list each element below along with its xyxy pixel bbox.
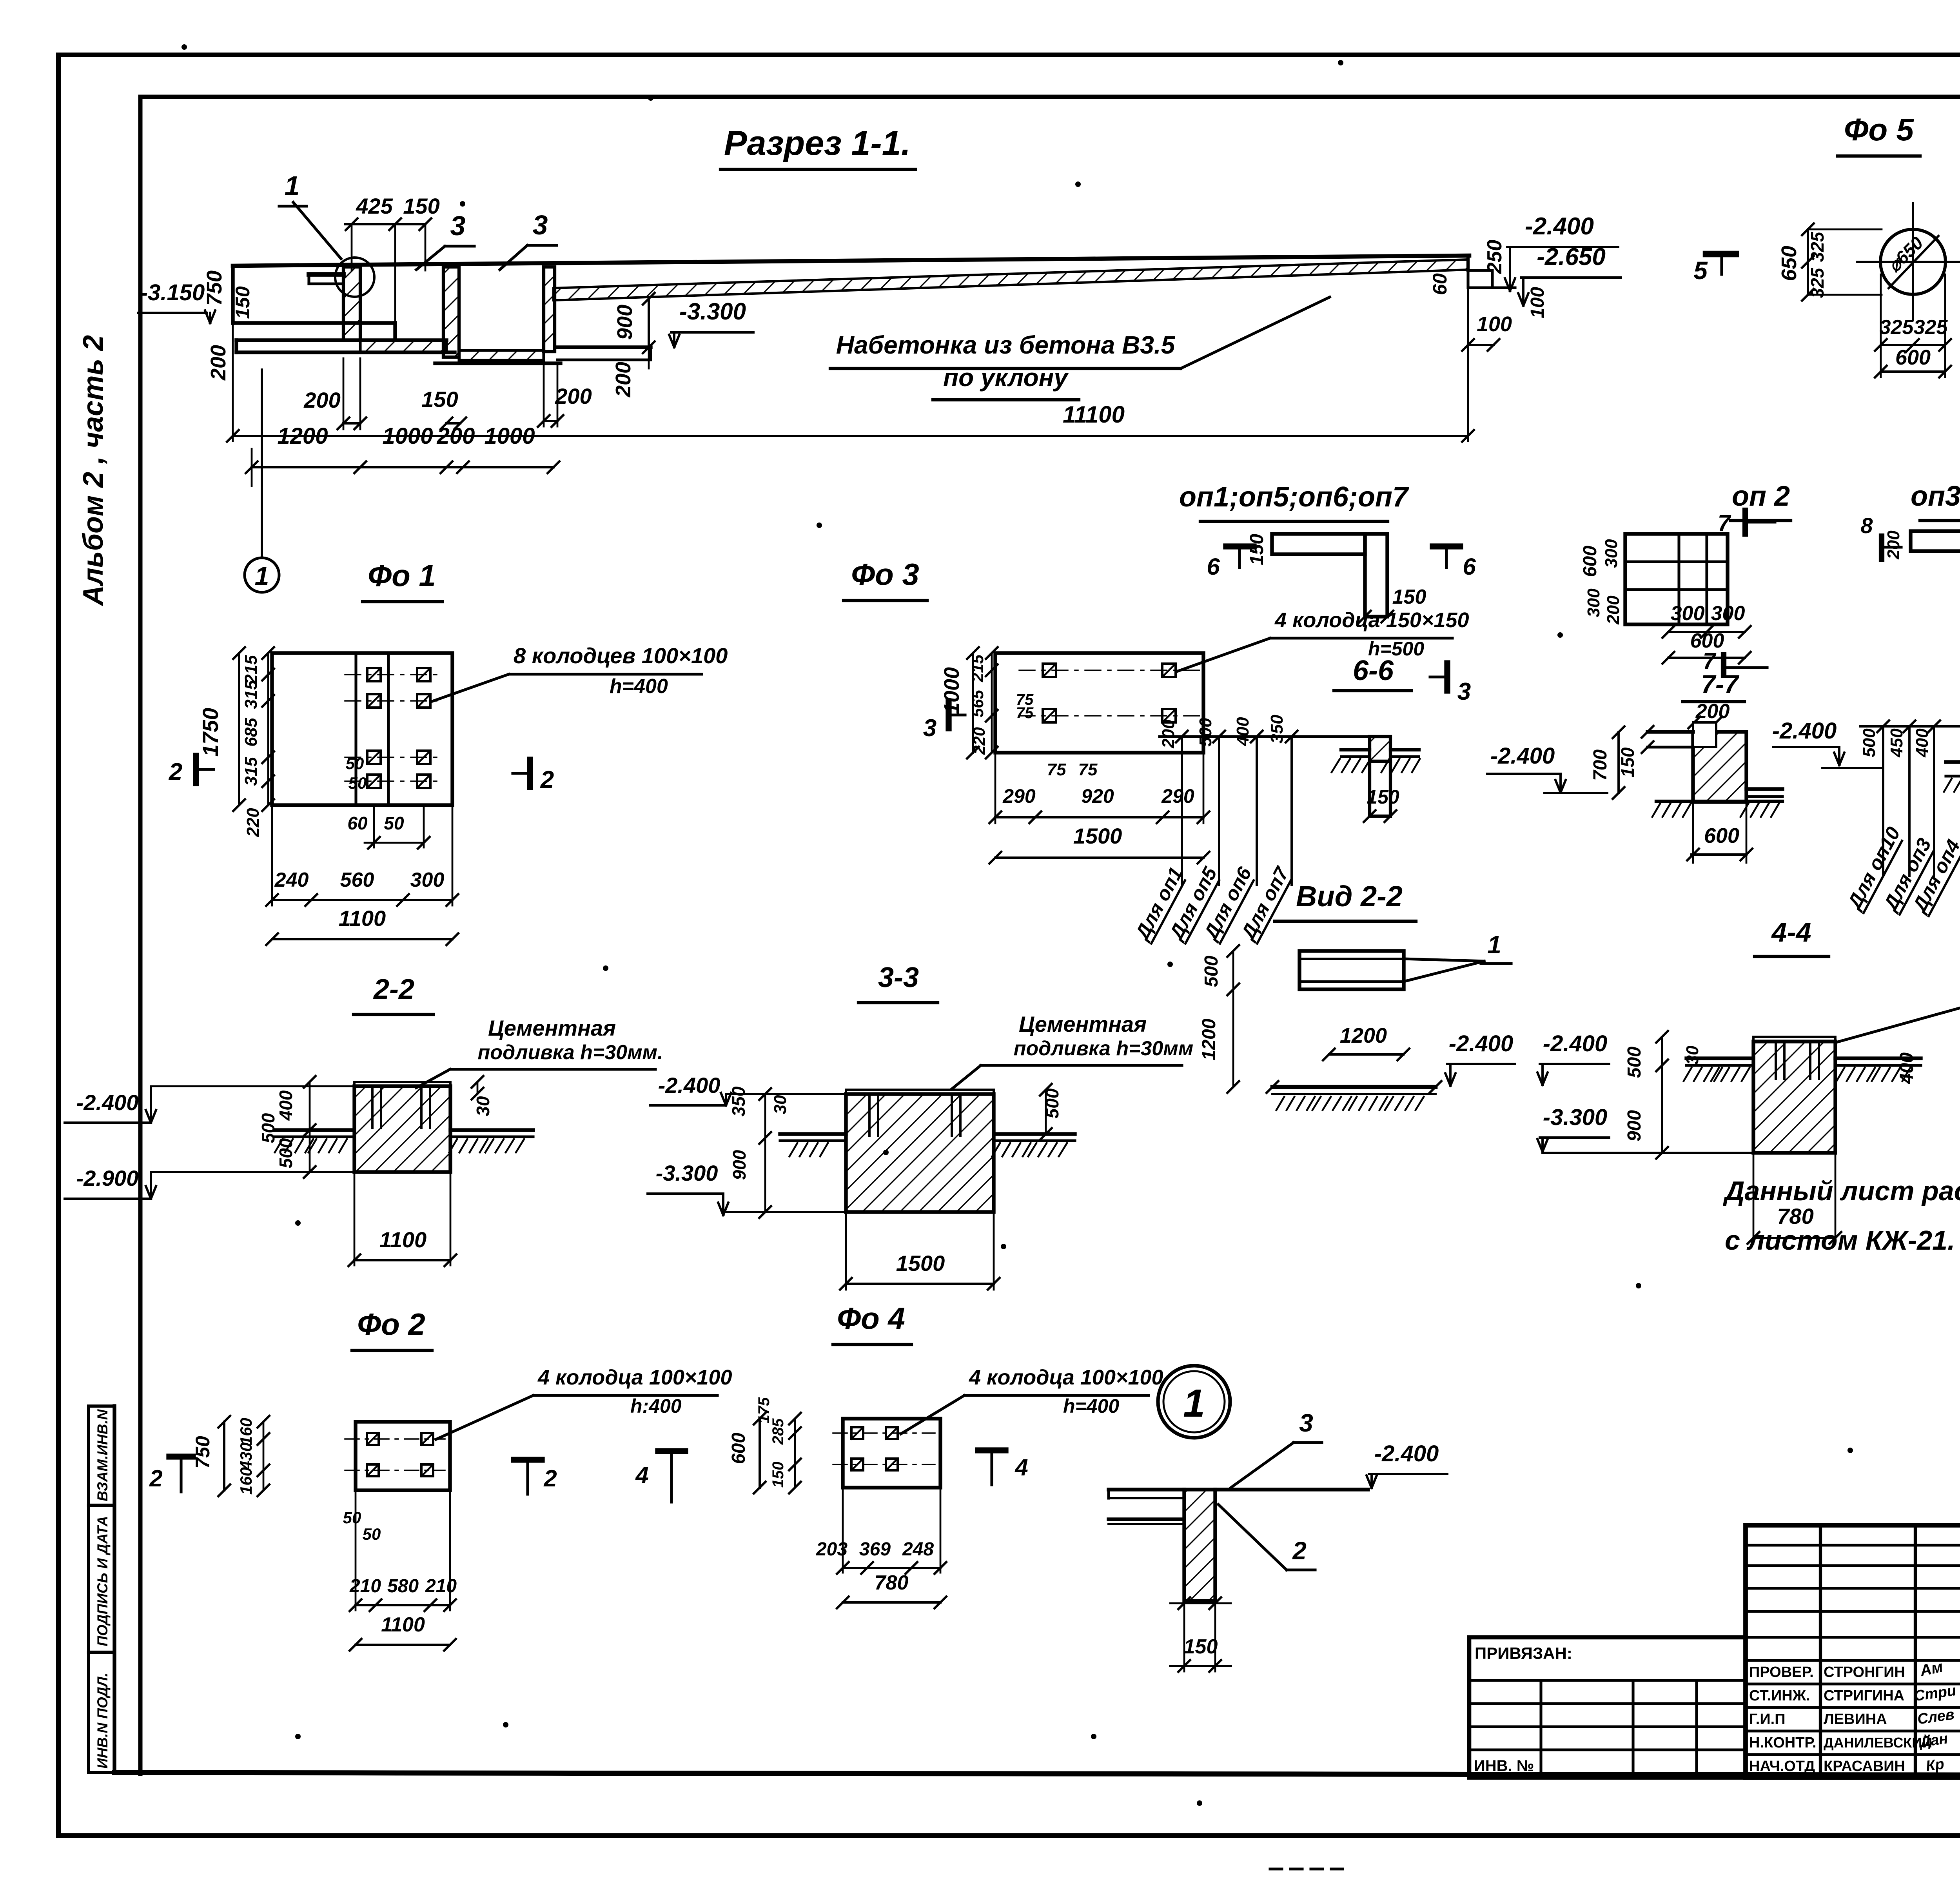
svg-text:Фо 5: Фо 5	[1844, 112, 1915, 147]
svg-text:Фо 4: Фо 4	[837, 1301, 905, 1335]
svg-text:350: 350	[1267, 715, 1287, 744]
privyazan table	[1469, 1637, 1746, 1778]
2-2 note leader	[416, 1069, 450, 1088]
Fo1 bolts	[367, 668, 381, 681]
razrez top line	[233, 256, 1469, 266]
svg-text:500: 500	[276, 1138, 296, 1168]
svg-text:500: 500	[1201, 956, 1222, 987]
7-7 ground line	[1656, 800, 1782, 803]
Fo3 section mark 3 right	[1444, 663, 1450, 691]
svg-text:с листом КЖ-21.: с листом КЖ-21.	[1725, 1225, 1955, 1256]
svg-text:600: 600	[1704, 824, 1739, 847]
title block upper grid rows	[1746, 1544, 1960, 1546]
Fo1 column strip lines	[354, 653, 357, 805]
svg-text:500: 500	[1196, 718, 1215, 747]
3-3 bolts in block	[868, 1094, 871, 1136]
op3 plan bar	[1911, 531, 1960, 551]
svg-text:h=400: h=400	[610, 675, 668, 698]
Fo2 bolt axes	[345, 1438, 445, 1440]
svg-text:оп3;оп4;оп10.: оп3;оп4;оп10.	[1911, 481, 1960, 512]
Fo5 left vertical dim 650 325 325	[1807, 229, 1809, 295]
bottom stray dash	[1270, 1867, 1343, 1870]
4-4 bottom level line	[1543, 1152, 1753, 1154]
Fo5 circle d650	[1880, 229, 1945, 294]
4-4 slab lines	[1686, 1056, 1753, 1060]
svg-text:200: 200	[555, 384, 592, 408]
axis circle 1	[245, 558, 279, 592]
svg-text:-3.150: -3.150	[140, 280, 205, 305]
detail1 hatched column	[1184, 1490, 1215, 1601]
svg-text:Альбом 2 , часть 2: Альбом 2 , часть 2	[78, 335, 109, 606]
svg-text:500: 500	[1624, 1047, 1645, 1078]
svg-text:Цементная: Цементная	[488, 1016, 616, 1040]
svg-text:1000: 1000	[940, 667, 964, 714]
detail1 top slab lines	[1109, 1488, 1184, 1491]
svg-text:325: 325	[1807, 267, 1828, 298]
svg-text:200: 200	[1695, 700, 1730, 723]
svg-text:3-3: 3-3	[878, 962, 919, 993]
Fo4 section mark 4 left	[658, 1448, 685, 1454]
svg-text:-2.900: -2.900	[76, 1166, 139, 1190]
8-8 dim extension verticals	[1882, 726, 1884, 876]
svg-text:Данный лист рассматривать вмес: Данный лист рассматривать вместе	[1723, 1176, 1960, 1206]
svg-text:ЛЕВИНА: ЛЕВИНА	[1824, 1711, 1887, 1727]
4-4 ground hatch	[1684, 1068, 1691, 1081]
svg-text:-3.300: -3.300	[1543, 1105, 1607, 1130]
Fo1 plan outer rect	[272, 653, 452, 805]
2-2 cement pad	[354, 1082, 450, 1086]
svg-text:-2.400: -2.400	[658, 1073, 720, 1098]
svg-text:-2.400: -2.400	[1772, 718, 1837, 744]
7-7 hatched block	[1693, 732, 1746, 802]
6-6 slab lines	[1341, 748, 1370, 751]
svg-text:4 колодца 100×100: 4 колодца 100×100	[969, 1366, 1163, 1389]
svg-text:4: 4	[635, 1462, 648, 1488]
svg-text:150: 150	[421, 387, 458, 412]
svg-text:150: 150	[403, 194, 439, 218]
svg-text:подливка h=30мм: подливка h=30мм	[1014, 1037, 1193, 1060]
detail1 lower slab lines	[1109, 1517, 1183, 1521]
svg-text:560: 560	[340, 869, 374, 891]
svg-text:h=500: h=500	[1368, 638, 1424, 660]
svg-text:100: 100	[1477, 312, 1512, 336]
svg-text:900: 900	[1624, 1110, 1645, 1141]
crew table row lines	[1746, 1659, 1960, 1662]
svg-text:75: 75	[1078, 760, 1098, 779]
Fo1 section mark 2 right	[527, 760, 533, 787]
axis circle 1 bottom	[1158, 1366, 1230, 1438]
svg-text:1: 1	[1183, 1381, 1205, 1425]
Fo5 section mark 5 left	[1706, 251, 1736, 258]
op1 plan column	[1365, 534, 1387, 617]
svg-text:150: 150	[1184, 1635, 1218, 1658]
svg-text:285: 285	[769, 1418, 787, 1445]
wall 2 hatched	[443, 267, 459, 357]
svg-text:Цементная: Цементная	[1019, 1012, 1147, 1036]
svg-text:Фо 2: Фо 2	[357, 1307, 425, 1341]
pit floor hatch strip	[459, 350, 544, 360]
svg-text:600: 600	[1580, 546, 1601, 577]
svg-text:8: 8	[1860, 513, 1873, 538]
wall 1 hatched	[343, 267, 360, 340]
7-7 right slab lines	[1746, 787, 1782, 791]
detail circle on wall1	[335, 258, 374, 297]
svg-text:215: 215	[241, 655, 261, 684]
svg-text:Вид 2-2: Вид 2-2	[1296, 880, 1403, 913]
Fo2 bolts	[367, 1433, 379, 1445]
detail1 top line right	[1215, 1488, 1368, 1491]
Fo2 plan outer rect	[356, 1422, 450, 1490]
svg-text:3: 3	[923, 715, 936, 742]
razrez floor hatch strip	[360, 340, 446, 352]
svg-text:1200: 1200	[1199, 1018, 1220, 1060]
svg-text:2: 2	[1292, 1537, 1307, 1565]
svg-text:ИНВ. №: ИНВ. №	[1474, 1757, 1534, 1775]
2-2 hatched block	[354, 1086, 450, 1172]
svg-text:-2.400: -2.400	[1374, 1441, 1439, 1466]
svg-text:6: 6	[1207, 553, 1220, 580]
4-4 bolts in block	[1775, 1042, 1777, 1079]
svg-text:400: 400	[1896, 1052, 1917, 1084]
svg-text:СТ.ИНЖ.: СТ.ИНЖ.	[1749, 1688, 1810, 1704]
svg-text:200: 200	[1159, 719, 1178, 749]
svg-text:250: 250	[1483, 240, 1506, 274]
svg-text:-2.400: -2.400	[1490, 743, 1555, 769]
svg-text:248: 248	[902, 1539, 934, 1560]
svg-text:2: 2	[540, 766, 554, 793]
title block outer rect	[1746, 1525, 1960, 1778]
8-8 slab lines	[1946, 760, 1960, 764]
svg-text:5: 5	[1693, 256, 1708, 285]
svg-text:Набетонка из бетона В3.5: Набетонка из бетона В3.5	[836, 331, 1176, 359]
4-4 hatched block	[1753, 1042, 1835, 1153]
svg-text:160: 160	[237, 1467, 255, 1495]
svg-text:150: 150	[1247, 534, 1267, 565]
svg-text:по уклону: по уклону	[943, 363, 1069, 392]
6-6 top line	[1160, 735, 1370, 738]
svg-text:315: 315	[241, 757, 261, 786]
svg-text:215: 215	[968, 654, 987, 682]
svg-text:2: 2	[149, 1465, 162, 1492]
svg-text:325: 325	[1914, 316, 1948, 339]
svg-text:Г.И.П: Г.И.П	[1749, 1711, 1786, 1727]
Fo4 plan outer rect	[843, 1419, 940, 1488]
svg-text:160: 160	[237, 1418, 255, 1445]
svg-text:220: 220	[243, 808, 263, 837]
wall 3 hatched	[544, 267, 555, 352]
Fo1 bolt row axes	[345, 674, 439, 675]
svg-text:300: 300	[1602, 539, 1621, 568]
Fo3 section mark 3 left	[946, 702, 951, 728]
svg-text:ПОДПИСЬ И ДАТА: ПОДПИСЬ И ДАТА	[94, 1516, 111, 1646]
scan speckle dots	[181, 44, 187, 50]
svg-text:Фо 3: Фо 3	[851, 557, 919, 592]
svg-text:оп 2: оп 2	[1732, 481, 1790, 512]
svg-text:30: 30	[771, 1095, 790, 1114]
svg-text:6-6: 6-6	[1353, 655, 1394, 686]
inventory strip dividers	[89, 1504, 114, 1507]
svg-text:325: 325	[1807, 231, 1828, 262]
svg-text:СТРОНГИН: СТРОНГИН	[1824, 1664, 1905, 1680]
3-3 note leader	[952, 1065, 981, 1089]
svg-text:500: 500	[1860, 728, 1879, 757]
svg-text:НАЧ.ОТД: НАЧ.ОТД	[1749, 1758, 1815, 1775]
razrez bottom slab lines	[236, 338, 446, 342]
Fo4 section mark 4 right	[978, 1447, 1005, 1453]
svg-text:325: 325	[1880, 316, 1914, 339]
svg-text:ВЗАМ.ИНВ.N: ВЗАМ.ИНВ.N	[94, 1409, 111, 1501]
svg-text:2: 2	[169, 758, 182, 786]
svg-text:7: 7	[1718, 510, 1731, 536]
svg-text:300: 300	[1711, 602, 1745, 625]
svg-text:150: 150	[1367, 786, 1399, 808]
axis line to circle 1	[261, 370, 263, 557]
svg-text:1100: 1100	[379, 1227, 426, 1252]
svg-text:3: 3	[450, 210, 466, 241]
3-3 ground hatch	[789, 1143, 797, 1156]
svg-text:150: 150	[232, 286, 254, 319]
svg-text:60: 60	[347, 813, 368, 833]
svg-text:50: 50	[348, 774, 367, 792]
svg-text:8 колодцев 100×100: 8 колодцев 100×100	[514, 643, 728, 668]
svg-text:-2.400: -2.400	[1543, 1031, 1607, 1056]
4-4 cement pad	[1753, 1037, 1835, 1042]
svg-text:100: 100	[1527, 287, 1548, 318]
3-3 slab lines	[780, 1132, 846, 1136]
3-3 cement pad	[846, 1090, 994, 1094]
svg-text:200: 200	[1604, 595, 1623, 625]
svg-text:h:400: h:400	[630, 1395, 682, 1417]
svg-text:50: 50	[363, 1525, 381, 1543]
svg-text:60: 60	[1429, 273, 1451, 295]
svg-text:30: 30	[473, 1096, 493, 1116]
svg-text:50: 50	[346, 754, 364, 773]
Fo2 section mark 2 right	[514, 1457, 542, 1463]
Fo4 bolts	[851, 1427, 863, 1439]
svg-text:-2.400: -2.400	[1449, 1031, 1513, 1056]
leader and label 1	[293, 202, 341, 259]
svg-text:3: 3	[1457, 678, 1471, 705]
6-6 hatched column	[1370, 737, 1390, 761]
right lower slab lines	[557, 345, 651, 349]
nabetonka leader	[1181, 297, 1330, 368]
svg-text:1: 1	[255, 561, 269, 590]
razrez floor line left room	[233, 321, 395, 325]
svg-text:780: 780	[875, 1571, 909, 1594]
op2 section mark 7 top	[1742, 510, 1748, 534]
razrez left edge	[231, 266, 234, 323]
svg-text:315: 315	[241, 680, 261, 709]
svg-text:ДАНИЛЕВСКИЙ: ДАНИЛЕВСКИЙ	[1824, 1734, 1932, 1751]
svg-text:1750: 1750	[198, 708, 223, 757]
7-7 left slab lines	[1648, 730, 1693, 733]
svg-text:1: 1	[1487, 931, 1501, 959]
Fo1 section mark 2 left	[193, 756, 199, 783]
6-6 dim extension verticals	[1181, 737, 1183, 885]
Fo5 diameter label	[1889, 236, 1938, 288]
svg-text:h=400: h=400	[1063, 1395, 1119, 1417]
left margin inventory strip box	[89, 1406, 114, 1773]
op3 section mark 8 left	[1879, 536, 1884, 559]
svg-text:150: 150	[769, 1462, 787, 1488]
Fo2 section mark 2 left	[169, 1453, 193, 1459]
svg-text:210: 210	[425, 1576, 457, 1597]
svg-text:-3.300: -3.300	[656, 1161, 718, 1185]
svg-text:150: 150	[1392, 586, 1426, 608]
svg-text:4 колодца 100×100: 4 колодца 100×100	[537, 1366, 732, 1389]
svg-text:400: 400	[1233, 717, 1252, 746]
svg-text:1200: 1200	[1340, 1024, 1387, 1047]
svg-text:220: 220	[970, 727, 988, 755]
svg-text:2-2: 2-2	[373, 974, 414, 1005]
svg-text:Н.КОНТР.: Н.КОНТР.	[1749, 1735, 1817, 1751]
svg-text:450: 450	[1887, 728, 1906, 758]
svg-text:1: 1	[285, 171, 300, 201]
svg-text:подливка h=30мм.: подливка h=30мм.	[478, 1041, 663, 1064]
svg-text:-2.650: -2.650	[1537, 243, 1606, 270]
Fo3 bolt axes	[1019, 670, 1200, 671]
8-8 ground hatch	[1944, 778, 1952, 792]
svg-text:1500: 1500	[1073, 824, 1122, 848]
Vid2-2 bottom slab	[1272, 1085, 1436, 1089]
2-2 bolts in block	[371, 1086, 374, 1128]
svg-text:750: 750	[203, 270, 226, 306]
Vid2-2 ground hatch	[1276, 1097, 1284, 1110]
op1 plan bar	[1272, 534, 1365, 554]
svg-text:-2.400: -2.400	[1525, 213, 1594, 240]
svg-text:900: 900	[613, 305, 637, 340]
svg-text:425: 425	[356, 194, 393, 218]
inner frame bottom line	[114, 1773, 1960, 1776]
svg-text:50: 50	[343, 1508, 361, 1527]
pit bottom line	[435, 361, 561, 365]
svg-text:ПРОВЕР.: ПРОВЕР.	[1749, 1664, 1814, 1680]
svg-text:4 колодца 150×150: 4 колодца 150×150	[1274, 608, 1469, 632]
svg-text:2: 2	[543, 1465, 557, 1492]
svg-text:ИНВ.N ПОДЛ.: ИНВ.N ПОДЛ.	[94, 1673, 111, 1769]
svg-text:1100: 1100	[339, 906, 386, 931]
Fo5 bottom dims 325 325 600	[1881, 344, 1945, 346]
long sloped slab band hatched	[554, 259, 1468, 300]
svg-text:300: 300	[1584, 588, 1603, 617]
svg-text:50: 50	[384, 813, 404, 833]
svg-text:565: 565	[968, 690, 987, 717]
svg-text:290: 290	[1002, 785, 1036, 807]
svg-text:1500: 1500	[896, 1251, 945, 1276]
op2 plan square grid	[1625, 534, 1728, 624]
svg-text:600: 600	[728, 1433, 749, 1464]
svg-text:290: 290	[1161, 785, 1194, 807]
Vid2-2 leader 1	[1404, 959, 1484, 961]
svg-text:11100: 11100	[1063, 401, 1125, 428]
dim line vertical mid	[648, 299, 650, 347]
svg-text:-3.300: -3.300	[679, 298, 746, 325]
svg-text:750: 750	[192, 1436, 214, 1469]
2-2 slab lines	[274, 1128, 354, 1132]
svg-text:430: 430	[237, 1443, 255, 1470]
svg-text:Разрез 1-1.: Разрез 1-1.	[724, 123, 911, 162]
Fo3 bolts	[1043, 664, 1056, 677]
svg-text:200: 200	[303, 388, 340, 412]
svg-text:300: 300	[410, 869, 445, 891]
svg-text:КРАСАВИН: КРАСАВИН	[1824, 1758, 1905, 1775]
svg-text:900: 900	[729, 1150, 750, 1180]
svg-text:400: 400	[276, 1090, 296, 1121]
svg-text:4-4: 4-4	[1771, 917, 1811, 947]
svg-text:30: 30	[1683, 1045, 1702, 1065]
svg-text:200: 200	[1884, 530, 1903, 560]
op1 section mark 6 right	[1433, 543, 1460, 549]
svg-text:СТРИГИНА: СТРИГИНА	[1824, 1688, 1904, 1704]
Fo4 bolt axes	[833, 1432, 935, 1434]
2-2 ground hatch	[275, 1139, 283, 1152]
svg-text:580: 580	[387, 1576, 419, 1597]
op1 section mark 6 left	[1226, 543, 1254, 549]
svg-text:75: 75	[1047, 760, 1066, 779]
6-6 ground hatch	[1332, 759, 1340, 772]
svg-text:ПРИВЯЗАН:: ПРИВЯЗАН:	[1475, 1644, 1572, 1662]
svg-text:75: 75	[1016, 704, 1034, 722]
svg-text:200: 200	[612, 362, 635, 397]
title block vertical dividers left table	[1819, 1525, 1822, 1778]
svg-text:-2.400: -2.400	[76, 1090, 139, 1115]
anchor bolt at wall1	[309, 272, 343, 277]
Vid2-2 bar rect	[1299, 951, 1404, 989]
svg-text:400: 400	[1913, 728, 1932, 758]
svg-text:1100: 1100	[381, 1613, 425, 1636]
svg-text:150: 150	[1617, 747, 1638, 777]
detail1 mid tick	[1170, 1602, 1231, 1604]
svg-text:200: 200	[207, 345, 230, 381]
3-3 hatched block	[846, 1094, 994, 1212]
svg-text:920: 920	[1081, 785, 1114, 807]
svg-text:3: 3	[533, 210, 548, 240]
svg-text:210: 210	[349, 1576, 381, 1597]
svg-text:369: 369	[859, 1539, 891, 1560]
svg-text:700: 700	[1590, 749, 1611, 781]
svg-text:6: 6	[1463, 553, 1476, 580]
Fo5 crosshair	[1857, 261, 1960, 263]
svg-text:600: 600	[1895, 346, 1931, 369]
svg-text:685: 685	[241, 718, 261, 747]
svg-text:240: 240	[274, 869, 309, 891]
7-7 ground hatch	[1652, 804, 1660, 817]
slab right end	[1466, 256, 1470, 270]
svg-text:300: 300	[1671, 602, 1705, 625]
svg-text:650: 650	[1777, 246, 1801, 281]
svg-text:оп1;оп5;оп6;оп7: оп1;оп5;оп6;оп7	[1179, 481, 1409, 513]
svg-text:350: 350	[728, 1086, 749, 1116]
svg-text:Кр: Кр	[1925, 1756, 1945, 1775]
Fo3 plan outer rect	[995, 653, 1203, 753]
svg-text:4: 4	[1014, 1454, 1028, 1481]
svg-text:3: 3	[1299, 1409, 1313, 1437]
4-4 note leader	[1838, 1003, 1960, 1042]
svg-text:Фо 1: Фо 1	[368, 558, 436, 593]
svg-text:7-7: 7-7	[1701, 670, 1740, 699]
